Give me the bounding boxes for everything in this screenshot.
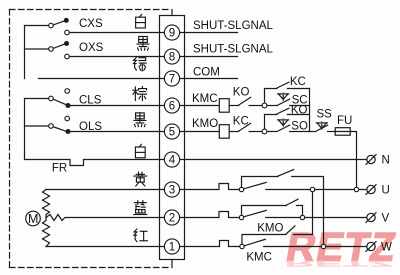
svg-text:KC: KC — [233, 115, 249, 127]
svg-text:CLS: CLS — [79, 94, 102, 106]
svg-text:KC: KC — [290, 76, 306, 88]
svg-text:5: 5 — [169, 127, 175, 139]
svg-text:3: 3 — [169, 185, 175, 197]
svg-text:W: W — [381, 242, 392, 254]
svg-text:N: N — [382, 155, 390, 167]
svg-text:KO: KO — [291, 105, 308, 117]
svg-text:M: M — [28, 212, 38, 226]
svg-text:RETZ: RETZ — [284, 259, 395, 268]
svg-text:FU: FU — [337, 115, 352, 127]
svg-text:CXS: CXS — [79, 18, 103, 30]
svg-text:1: 1 — [169, 242, 175, 254]
svg-text:4: 4 — [169, 155, 176, 167]
svg-text:KMC: KMC — [192, 93, 218, 105]
svg-text:8: 8 — [169, 52, 175, 64]
svg-text:V: V — [382, 213, 390, 225]
svg-text:COM: COM — [193, 66, 220, 78]
svg-text:OLS: OLS — [79, 121, 102, 133]
svg-text:SHUT-SLGNAL: SHUT-SLGNAL — [193, 43, 273, 55]
svg-text:SS: SS — [317, 108, 333, 120]
svg-text:KMC: KMC — [246, 251, 272, 263]
svg-text:KMO: KMO — [192, 118, 218, 130]
svg-text:KMO: KMO — [257, 223, 283, 235]
svg-text:9: 9 — [169, 28, 175, 40]
svg-text:SHUT-SLGNAL: SHUT-SLGNAL — [193, 20, 273, 32]
svg-text:U: U — [382, 185, 390, 197]
svg-text:FR: FR — [52, 163, 67, 175]
svg-text:2: 2 — [169, 213, 175, 225]
svg-text:SO: SO — [291, 121, 308, 133]
svg-text:KO: KO — [233, 87, 250, 99]
svg-text:7: 7 — [169, 74, 175, 86]
svg-text:OXS: OXS — [79, 42, 104, 54]
svg-text:6: 6 — [169, 101, 175, 113]
